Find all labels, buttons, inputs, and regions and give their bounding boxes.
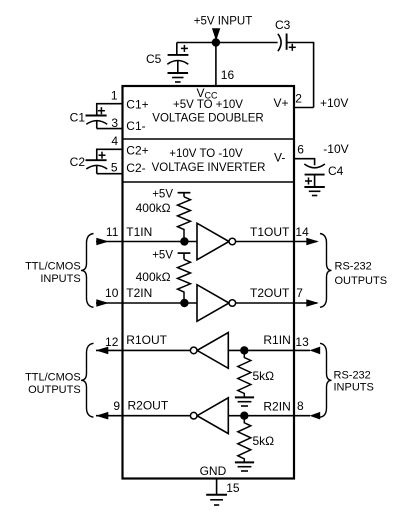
C4 plus polarity [305, 178, 312, 185]
brace TTL/CMOS inputs [81, 234, 94, 308]
svg-text:14: 14 [295, 225, 309, 239]
svg-text:R1IN: R1IN [263, 333, 290, 347]
divider doubler/inverter [123, 138, 295, 140]
svg-text:R2OUT: R2OUT [128, 398, 169, 412]
wire R2IN row [228, 415, 310, 417]
svg-text:INPUTS: INPUTS [40, 273, 80, 285]
svg-text:+5V: +5V [152, 188, 173, 200]
brace TTL/CMOS outputs [81, 343, 94, 417]
svg-text:VOLTAGE DOUBLER: VOLTAGE DOUBLER [152, 113, 263, 125]
ground below C5 [168, 73, 189, 82]
op-amp receiver R1 [190, 333, 228, 369]
svg-text:C1: C1 [70, 110, 86, 124]
arrow into pin 10 [96, 299, 109, 307]
svg-text:5: 5 [111, 161, 118, 175]
C2 plus polarity [99, 152, 106, 159]
svg-text:C4: C4 [328, 164, 344, 178]
arrow into pin 13 [309, 347, 320, 355]
svg-text:+5V TO +10V: +5V TO +10V [173, 99, 243, 111]
svg-text:OUTPUTS: OUTPUTS [335, 275, 388, 287]
svg-text:5kΩ: 5kΩ [253, 369, 275, 383]
svg-text:-10V: -10V [323, 142, 348, 156]
svg-text:+5V: +5V [152, 249, 173, 261]
capacitor C2 [86, 160, 108, 174]
capacitor C4 [304, 164, 325, 187]
wire T1IN row [96, 241, 197, 243]
svg-text:3: 3 [111, 116, 118, 130]
C5 plus polarity [181, 45, 188, 52]
arrow out of pin 12 [96, 347, 109, 355]
svg-text:T2IN: T2IN [126, 286, 152, 300]
resistor 400k (T1) [178, 197, 191, 242]
svg-text:T1IN: T1IN [126, 225, 152, 239]
ground below 5k R1 [235, 397, 254, 406]
svg-text:C1-: C1- [126, 119, 145, 133]
wire R1IN row [228, 349, 310, 351]
arrow out of pin 9 [96, 412, 109, 420]
junction T1IN node [180, 237, 188, 245]
svg-text:RS-232: RS-232 [334, 369, 371, 381]
svg-text:C1+: C1+ [126, 97, 148, 111]
resistor 5k (R2) [238, 416, 251, 463]
svg-text:13: 13 [295, 335, 309, 349]
power +5V pull-up 1 [152, 188, 190, 200]
junction R2IN node [240, 412, 248, 420]
arrow out of pin 7 [306, 299, 319, 307]
svg-text:C2-: C2- [126, 161, 145, 175]
wire R1OUT row [96, 349, 190, 351]
wire +5V rail left [177, 42, 216, 44]
capacitor C1 [86, 116, 108, 129]
divider inverter/drivers [123, 181, 295, 183]
svg-text:+10V: +10V [320, 96, 348, 110]
wire T2OUT row [236, 302, 317, 304]
wire R2OUT row [96, 415, 190, 417]
svg-text:VOLTAGE INVERTER: VOLTAGE INVERTER [152, 162, 266, 174]
svg-text:TTL/CMOS: TTL/CMOS [25, 371, 81, 383]
svg-text:T2OUT: T2OUT [250, 286, 290, 300]
svg-text:2: 2 [295, 92, 302, 106]
capacitor C3 [278, 34, 287, 52]
svg-text:7: 7 [296, 286, 303, 300]
arrow into +5V node [212, 28, 220, 41]
svg-text:TTL/CMOS: TTL/CMOS [25, 260, 81, 272]
wire pin2 V+ [294, 107, 314, 109]
svg-text:16: 16 [221, 68, 235, 82]
op-amp driver T1 [197, 223, 236, 260]
svg-text:400kΩ: 400kΩ [136, 201, 171, 215]
svg-text:1: 1 [111, 89, 118, 103]
svg-text:INPUTS: INPUTS [334, 382, 374, 394]
svg-text:R1OUT: R1OUT [126, 333, 167, 347]
junction T2IN node [180, 299, 188, 307]
ground below 5k R2 [235, 462, 254, 471]
ground pin15 [206, 495, 227, 505]
wire pin16 stub [215, 43, 217, 87]
svg-text:OUTPUTS: OUTPUTS [28, 384, 81, 396]
wire T2IN row [96, 302, 197, 304]
op-amp driver T2 [197, 285, 236, 322]
svg-text:400kΩ: 400kΩ [136, 270, 171, 284]
svg-text:8: 8 [297, 399, 304, 413]
arrow out of pin 14 [306, 238, 319, 246]
junction +5V node [212, 38, 220, 46]
arrow into pin 8 [309, 412, 320, 420]
IC box U1 [123, 86, 295, 479]
wire C3 to V+ [287, 43, 314, 108]
svg-text:GND: GND [200, 464, 227, 478]
wire T1OUT row [236, 241, 317, 243]
brace RS-232 inputs [320, 343, 332, 417]
svg-text:10: 10 [105, 286, 119, 300]
svg-text:C2+: C2+ [126, 143, 148, 157]
svg-text:T1OUT: T1OUT [250, 225, 290, 239]
arrow into pin 11 [96, 238, 109, 246]
pin 6 wire V- [294, 159, 315, 166]
svg-text:RS-232: RS-232 [335, 260, 372, 272]
wire +5V rail right to C3 [216, 42, 278, 44]
power +5V pull-up 2 [152, 249, 190, 261]
svg-text:12: 12 [105, 335, 119, 349]
svg-text:+5V INPUT: +5V INPUT [194, 16, 252, 28]
C1 plus polarity [98, 107, 105, 114]
svg-text:V+: V+ [273, 96, 288, 110]
svg-text:C2: C2 [70, 155, 86, 169]
svg-text:5kΩ: 5kΩ [253, 434, 275, 448]
op-amp receiver R2 [190, 398, 228, 434]
ground below C4 [304, 187, 324, 196]
pin 1 wire C1+ [97, 104, 123, 116]
pin 3 wire C1- [97, 128, 123, 130]
pin 4 wire C2+ [97, 149, 123, 160]
svg-text:R2IN: R2IN [263, 399, 290, 413]
svg-text:C5: C5 [146, 52, 162, 66]
svg-text:9: 9 [113, 399, 120, 413]
C3 plus polarity [289, 44, 296, 51]
junction R1IN node [240, 346, 248, 354]
resistor 5k (R1) [238, 350, 251, 397]
svg-text:C3: C3 [275, 18, 291, 32]
svg-text:11: 11 [106, 225, 119, 239]
svg-text:4: 4 [111, 134, 118, 148]
pin 5 wire C2- [97, 173, 123, 175]
svg-text:6: 6 [297, 143, 304, 157]
wire pin15 stub [216, 479, 218, 495]
svg-text:V-: V- [274, 151, 285, 165]
brace RS-232 outputs [320, 234, 332, 308]
svg-text:15: 15 [226, 481, 240, 495]
svg-text:+10V TO -10V: +10V TO -10V [169, 148, 243, 160]
resistor 400k (T2) [178, 259, 191, 303]
capacitor C5 [167, 43, 188, 74]
